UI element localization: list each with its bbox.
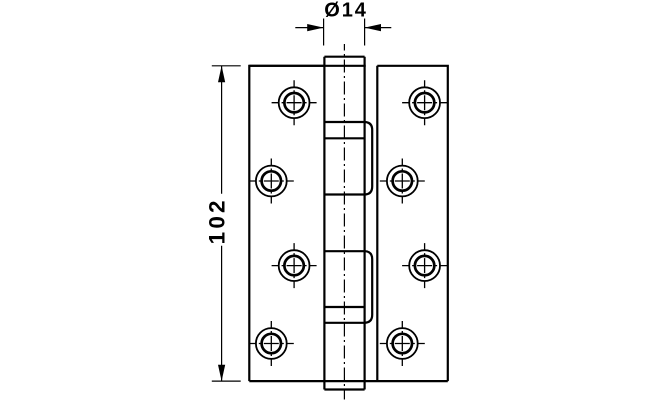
barrel left edge [323,57,325,390]
screw hole 4 left [249,321,294,366]
barrel top cap [324,56,364,58]
knuckle sleeve 1 [324,122,372,195]
dim Ø14 leader right [365,27,392,29]
leaf bottom edge [249,380,447,382]
screw hole 2 right [380,159,425,204]
leaf top edge across barrel [249,65,365,67]
hinge right leaf outline [377,66,448,381]
dim 102 extension tick top [212,65,241,67]
barrel bottom cap [324,388,364,390]
knuckle joint line 2 [324,306,364,308]
dim Ø14 arrow left [307,24,323,31]
screw hole 3 right [402,243,447,288]
screw hole 3 left [272,243,317,288]
right leaf inner edge [376,66,378,381]
screw hole 1 left [272,80,317,125]
dim 102 arrow top [218,66,225,82]
dim 102 line lower [221,246,223,381]
barrel right edge [364,57,366,390]
screw hole 2 left [249,159,294,204]
screw hole 4 right [380,321,425,366]
svg-text:102: 102 [205,197,230,244]
dim Ø14 arrow right [365,24,381,31]
dim 102 extension tick bottom [212,380,241,382]
svg-text:Ø14: Ø14 [324,0,368,21]
pin centre line [343,44,345,400]
dim 102 arrow bottom [218,365,225,381]
knuckle joint line 1 [324,137,364,139]
knuckle sleeve 2 [324,251,372,323]
dim Ø14 extension line right [364,19,366,46]
dim Ø14 extension line left [323,19,325,46]
dim Ø14 leader left [295,27,323,29]
hinge left leaf outline [249,66,324,381]
screw hole 1 right [402,80,447,125]
dim 102 line upper [221,66,223,194]
